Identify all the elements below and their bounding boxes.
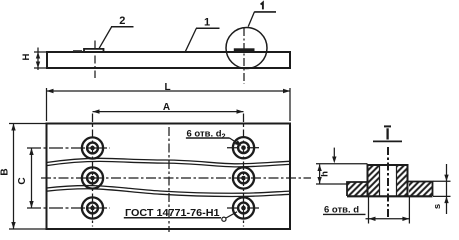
- svg-text:ГОСТ 14771-76-Н1: ГОСТ 14771-76-Н1: [125, 207, 220, 219]
- svg-text:2: 2: [119, 15, 125, 27]
- centerline of left pad/hole column (side view): [94, 41, 96, 79]
- pad item2 on top of plate (side view): [84, 49, 104, 52]
- hole A2 (middle-left): [82, 167, 103, 188]
- d dimension extension lines: [368, 197, 370, 224]
- wavy break line band 2 upper: [47, 186, 291, 194]
- svg-text:s: s: [432, 204, 443, 209]
- A dimension line with arrows: [93, 111, 244, 113]
- faint ledge left of pad (side view): [73, 50, 82, 52]
- boss (pad) hatched left column: [368, 165, 380, 196]
- svg-text:L: L: [164, 82, 170, 93]
- svg-text:1: 1: [204, 17, 210, 29]
- plate left block outline: [347, 182, 368, 196]
- s dimension line with outside arrows: [446, 164, 448, 214]
- pad item2 at right column (inside callout circle, drawn thick): [234, 48, 255, 51]
- vertical centerline of plate (plan): [168, 127, 170, 232]
- boss outline: [368, 165, 408, 196]
- detail callout circle I: [226, 28, 267, 69]
- hole B2 (middle-right): [233, 167, 254, 188]
- plate item1 outline (side view): [47, 52, 290, 68]
- detail label I (top) with underline and leader: [261, 3, 263, 10]
- s dimension extension lines: [433, 180, 451, 182]
- row1 centerline right: [227, 147, 261, 149]
- L dimension line with arrows: [47, 90, 291, 92]
- C dimension line with arrows: [31, 148, 33, 208]
- svg-text:H: H: [21, 53, 32, 60]
- centerline of right pad/hole column (side view): [243, 28, 245, 84]
- plate right block outline: [408, 182, 433, 197]
- B dimension line with arrows: [13, 124, 15, 230]
- detail view label I with overbar and underline: [384, 125, 391, 127]
- hole vertical centerline (detail): [387, 147, 389, 217]
- svg-text:h: h: [320, 171, 331, 177]
- left hole-column centerline (also A extension): [92, 114, 94, 227]
- wavy break line band 1 lower: [47, 161, 291, 167]
- row3 centerline left (extends to C dimension): [27, 207, 110, 209]
- right hole-column centerline (also A extension): [243, 114, 245, 227]
- wavy break line band 2 lower: [47, 189, 291, 197]
- plate hatched left block: [347, 182, 368, 197]
- boss (pad) hatched right column: [397, 165, 408, 196]
- hole B3 (bottom-right): [233, 197, 254, 218]
- h dimension extension lines: [316, 163, 368, 165]
- svg-text:B: B: [0, 168, 11, 175]
- plate bottom edge line: [347, 195, 433, 197]
- middle row horizontal centerline (long): [41, 177, 311, 179]
- H dimension line with arrows: [37, 48, 39, 71]
- L dimension extension lines: [46, 88, 48, 121]
- h dimension line with arrows: [319, 165, 321, 184]
- svg-text:C: C: [17, 177, 28, 184]
- row1 centerline left (extends to C dimension): [27, 147, 110, 149]
- svg-text:A: A: [163, 102, 170, 113]
- reference arrow pointing down to boss top: [333, 148, 335, 161]
- svg-text:6 отв. d: 6 отв. d: [324, 204, 359, 215]
- hole A1 (top-left): outer, inner, center dot: [82, 137, 103, 158]
- wavy break line band 1 upper: [47, 158, 291, 164]
- plate outline (plan view): [47, 124, 291, 230]
- d dimension line with arrows: [366, 218, 410, 220]
- row3 centerline right: [227, 207, 261, 209]
- hole B1 (top-right): [233, 137, 254, 158]
- B dimension extension lines: [9, 123, 47, 125]
- hole A3 (bottom-left): [82, 197, 103, 218]
- H dimension extension lines: [34, 51, 47, 53]
- plate hatched right block: [409, 182, 433, 197]
- hole edge lines (detail): [379, 165, 381, 196]
